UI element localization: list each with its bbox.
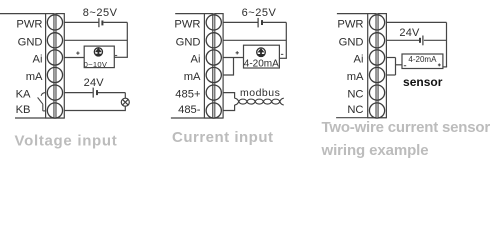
device outline top edge bbox=[175, 13, 223, 15]
wire right rail down bbox=[285, 22, 287, 58]
wire rail to transducer minus bbox=[279, 57, 287, 59]
battery B2 24V bbox=[93, 88, 97, 98]
transducer U1 0~10V bbox=[84, 46, 115, 69]
svg-text:Ai: Ai bbox=[354, 54, 364, 66]
wire jumper to sensor minus bbox=[396, 64, 403, 66]
wire jumper vertical bbox=[395, 58, 397, 76]
wire rail to transducer minus bbox=[114, 56, 128, 58]
wire PWR to right rail bbox=[386, 21, 446, 23]
svg-text:6~25V: 6~25V bbox=[242, 7, 277, 19]
wire KA to battery B2 bbox=[64, 92, 92, 94]
device outline bottom edge bbox=[171, 117, 223, 119]
svg-text:Ai: Ai bbox=[33, 54, 43, 66]
svg-text:PWR: PWR bbox=[337, 19, 363, 31]
plus sign bbox=[76, 52, 79, 55]
wire Ai to transducer plus bbox=[223, 57, 243, 59]
svg-text:Voltage input: Voltage input bbox=[15, 133, 118, 150]
sensor box U3 4-20mA bbox=[402, 54, 443, 69]
plus sign bbox=[236, 51, 239, 54]
svg-text:wiring example: wiring example bbox=[321, 142, 429, 159]
wire Ai jumper stub bbox=[386, 57, 395, 59]
minus sign bbox=[115, 55, 117, 57]
wire PWR to battery B1 bbox=[64, 21, 98, 23]
svg-text:GND: GND bbox=[339, 36, 364, 48]
svg-text:NC: NC bbox=[347, 89, 363, 101]
wire GND to right rail bbox=[64, 39, 127, 41]
device outline top edge bbox=[0, 13, 65, 15]
terminal block TB3 bbox=[368, 14, 387, 119]
device outline bottom edge bbox=[15, 117, 65, 119]
wire Ai to transducer plus bbox=[64, 57, 84, 59]
svg-text:modbus: modbus bbox=[240, 87, 280, 99]
svg-text:mA: mA bbox=[26, 71, 43, 83]
terminal block TB2 bbox=[204, 14, 223, 119]
svg-text:GND: GND bbox=[18, 36, 43, 48]
wire 485+ to twisted pair bbox=[223, 93, 235, 99]
svg-text:485+: 485+ bbox=[175, 89, 200, 101]
battery B3 bbox=[258, 18, 262, 28]
relay contact K1 between KA and KB bbox=[38, 93, 46, 111]
wire battery B4 to right rail bbox=[424, 39, 447, 41]
wire battery B1 to right rail bbox=[103, 21, 127, 23]
wire PWR to battery B3 bbox=[223, 21, 258, 23]
svg-text:NC: NC bbox=[347, 104, 363, 116]
svg-text:Ai: Ai bbox=[191, 54, 201, 66]
svg-text:GND: GND bbox=[176, 36, 201, 48]
lamp DS1 bbox=[121, 98, 129, 106]
device outline bottom edge bbox=[336, 117, 386, 119]
svg-text:mA: mA bbox=[184, 71, 201, 83]
svg-text:4-20mA: 4-20mA bbox=[408, 55, 437, 64]
wire rail to sensor plus bbox=[443, 66, 447, 68]
terminal block TB1 bbox=[46, 14, 65, 119]
wire lamp to KB bbox=[64, 106, 125, 110]
svg-text:PWR: PWR bbox=[174, 19, 200, 31]
battery B4 24V bbox=[420, 36, 423, 46]
device outline top edge bbox=[337, 13, 387, 15]
svg-text:KA: KA bbox=[16, 89, 31, 101]
svg-text:0~10V: 0~10V bbox=[84, 60, 108, 69]
twisted pair cable bbox=[235, 98, 284, 105]
wire GND to right rail bbox=[223, 39, 286, 41]
svg-text:485-: 485- bbox=[178, 104, 201, 116]
wire GND to battery B4 bbox=[386, 39, 419, 41]
svg-text:sensor: sensor bbox=[403, 75, 443, 89]
wire right rail down bbox=[126, 22, 128, 57]
svg-text:mA: mA bbox=[347, 71, 364, 83]
transducer U2 4-20mA bbox=[244, 45, 280, 69]
wire battery B2 to lamp corner bbox=[98, 92, 125, 94]
wire mA to jumper bbox=[386, 74, 395, 76]
wire mA jumper up to Ai wire bbox=[223, 58, 233, 76]
wire down to lamp bbox=[124, 93, 126, 99]
svg-text:Current input: Current input bbox=[172, 129, 274, 146]
minus sign bbox=[404, 65, 406, 67]
svg-text:24V: 24V bbox=[84, 77, 105, 89]
plus sign bbox=[438, 64, 441, 67]
svg-text:8~25V: 8~25V bbox=[83, 7, 118, 19]
wire 485- to twisted pair bbox=[223, 105, 235, 111]
svg-text:4-20mA: 4-20mA bbox=[244, 59, 279, 70]
svg-text:PWR: PWR bbox=[16, 19, 42, 31]
svg-text:24V: 24V bbox=[399, 27, 420, 39]
wire right rail down bbox=[446, 22, 448, 67]
svg-text:KB: KB bbox=[16, 104, 31, 116]
svg-text:Two-wire current sensor: Two-wire current sensor bbox=[322, 119, 491, 136]
minus sign bbox=[281, 53, 283, 55]
wire battery B3 to right rail bbox=[263, 21, 286, 23]
battery B1 bbox=[99, 18, 103, 27]
